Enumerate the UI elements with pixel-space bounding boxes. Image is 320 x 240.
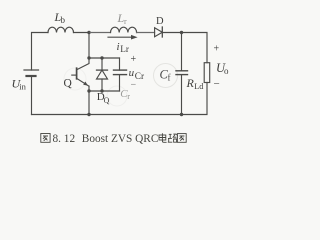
transistor Q collector diagonal (77, 58, 89, 70)
capacitor Cr plates (114, 70, 127, 75)
diode DQ cathode bar (97, 69, 108, 71)
battery Uin positive plate (24, 69, 39, 71)
svg-text:i: i (117, 41, 120, 53)
caption 图8.12 Boost ZVS QRC 电路图 (41, 133, 186, 145)
wire RLd to bottom-right corner (182, 83, 208, 115)
label DQ (97, 91, 110, 105)
svg-text:R: R (186, 76, 195, 90)
wire diode to node B (162, 32, 181, 34)
label RLd (186, 76, 205, 91)
svg-text:Lr: Lr (120, 44, 129, 54)
label Lr (117, 11, 128, 26)
svg-text:−: − (131, 80, 137, 91)
diode DQ triangle (97, 70, 108, 79)
svg-text:Q: Q (104, 96, 110, 105)
svg-text:Q: Q (64, 78, 73, 90)
svg-text:−: − (214, 78, 220, 90)
caption hanzi tu1 (41, 134, 50, 143)
resistor RLd box (204, 63, 210, 83)
node G junction DQ top (100, 56, 103, 59)
inductor Lr (110, 27, 136, 32)
watermark circle middle (107, 86, 127, 106)
wire battery to bottom rail (31, 77, 33, 115)
label Uin (12, 77, 27, 92)
transistor Q base lead (72, 74, 77, 76)
diode D triangle (155, 28, 163, 37)
wire bottom connector node E to Cr (89, 90, 120, 92)
transistor Q base bar (76, 68, 78, 79)
svg-text:Cr: Cr (135, 72, 145, 82)
battery Uin negative plate (27, 75, 36, 77)
svg-text:o: o (224, 66, 229, 76)
svg-text:+: + (131, 54, 137, 65)
current arrow iLr (108, 35, 138, 40)
label Uo (216, 61, 229, 76)
label Lb (54, 10, 66, 25)
label uCr plus (131, 54, 137, 65)
node E junction emitter/DQ/Cr bottom (87, 89, 90, 92)
node A junction Lb/Lr/Q (87, 31, 90, 34)
capacitor Cr top lead (119, 58, 121, 70)
label uCr (129, 67, 145, 82)
capacitor Cf top lead (181, 33, 183, 71)
svg-text:D: D (156, 16, 164, 27)
wire Lr to diode D (137, 32, 155, 34)
wire Lb to node A (74, 32, 90, 34)
label Uo plus (214, 44, 220, 55)
transistor Q emitter diagonal with arrow (77, 78, 89, 86)
label uCr minus (131, 80, 137, 91)
label Uo minus (214, 78, 220, 90)
wire node A down to node C (88, 33, 90, 59)
svg-text:r: r (127, 91, 130, 101)
label Cr (120, 88, 130, 101)
diode DQ anode lead (101, 79, 103, 91)
node F junction on bottom rail (87, 113, 90, 116)
label Cf (160, 68, 171, 83)
wire node A to Lr (89, 32, 111, 34)
svg-text:Boost ZVS QRC: Boost ZVS QRC (82, 133, 159, 145)
bottom rail wire (32, 114, 182, 116)
node H junction DQ bottom (100, 89, 103, 92)
node B junction D/Cf (180, 31, 183, 34)
svg-text:f: f (168, 73, 171, 83)
capacitor Cf bottom lead (181, 75, 183, 115)
capacitor Cr bottom lead (119, 75, 121, 91)
inductor Lb (48, 27, 74, 32)
watermark circle left (64, 68, 86, 90)
caption hanzi tu2 (177, 134, 186, 143)
wire top connector node C to Cr (89, 57, 120, 59)
watermark circle right (154, 64, 178, 88)
node C junction Q collector (87, 56, 90, 59)
svg-text:b: b (61, 15, 66, 25)
wire node B to top-right corner (182, 33, 208, 63)
label D (156, 16, 164, 27)
svg-text:u: u (129, 67, 135, 79)
capacitor Cf plates (176, 71, 188, 75)
svg-text:+: + (214, 44, 220, 55)
node Cf-bottom junction (180, 113, 183, 116)
svg-text:r: r (124, 17, 127, 26)
diode D cathode bar (161, 27, 163, 37)
caption hanzi dian (159, 133, 167, 142)
label iLr (117, 41, 129, 54)
wire node E to bottom rail (88, 91, 90, 115)
svg-text:in: in (19, 82, 26, 92)
caption hanzi lu (168, 134, 178, 142)
wire emitter to node E (88, 86, 90, 91)
label Q (64, 78, 73, 90)
svg-text:8. 12: 8. 12 (53, 133, 76, 145)
svg-text:Ld: Ld (194, 82, 204, 91)
diode DQ cathode lead (101, 58, 103, 70)
wire top-left segment (32, 33, 49, 71)
